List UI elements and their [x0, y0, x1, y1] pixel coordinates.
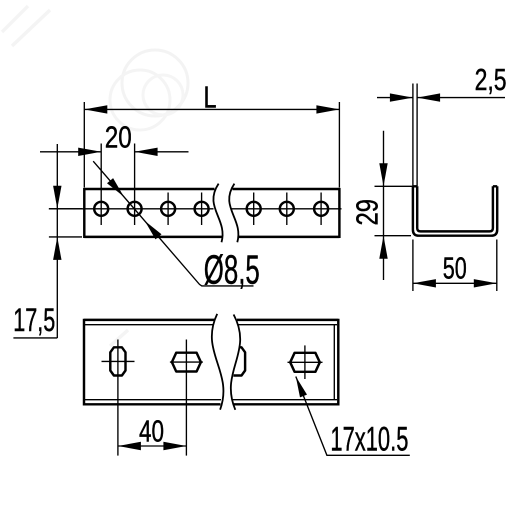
- svg-text:40: 40: [139, 414, 164, 448]
- hole H1: [94, 144, 108, 226]
- hole H7: [314, 193, 328, 226]
- hole H6: [280, 193, 294, 226]
- strip horizontal centerline: [49, 208, 342, 210]
- U-channel profile inner: [417, 186, 493, 231]
- dimension 29: [352, 131, 413, 280]
- slot S2 horizontal: [170, 340, 203, 456]
- plan break line right: [231, 315, 240, 410]
- break line right: [229, 184, 238, 243]
- svg-text:17x10.5: 17x10.5: [330, 420, 408, 458]
- slot S3 horizontal: [288, 345, 323, 379]
- svg-text:29: 29: [352, 199, 385, 226]
- hole H2: [128, 144, 142, 226]
- break line left: [213, 184, 222, 243]
- slot S1 vertical: [102, 340, 135, 456]
- dimension L: [84, 80, 339, 187]
- strip outline left part: [84, 188, 222, 238]
- partial slot at break: [230, 347, 245, 375]
- plan outline left part: [84, 319, 221, 406]
- leader 17x10.5: [296, 377, 410, 459]
- svg-text:Ø8,5: Ø8,5: [204, 247, 260, 293]
- dimension 40: [118, 414, 186, 450]
- strip outline right part: [233, 188, 340, 238]
- hole H3: [161, 193, 175, 226]
- U-channel wall top caps: [413, 185, 497, 187]
- dimension 17,5: [13, 144, 82, 338]
- dimension 2,5: [377, 62, 507, 102]
- hole H4: [195, 193, 209, 226]
- plan inner fold lines: [85, 325, 337, 400]
- plan outline right part: [234, 319, 339, 406]
- U-channel profile outer: [413, 186, 497, 235]
- hole H5: [247, 193, 261, 226]
- svg-text:2,5: 2,5: [475, 62, 507, 97]
- watermark swirl: [2, 6, 188, 346]
- dimension 50: [413, 240, 497, 292]
- svg-text:17,5: 17,5: [13, 302, 55, 338]
- wall thickness extension lines: [413, 84, 417, 187]
- plan break line left: [212, 314, 224, 410]
- svg-text:L: L: [204, 80, 217, 114]
- dimension 20: [40, 120, 189, 156]
- leader Ø8,5: [93, 161, 260, 292]
- svg-text:20: 20: [105, 120, 132, 155]
- svg-text:50: 50: [443, 251, 467, 286]
